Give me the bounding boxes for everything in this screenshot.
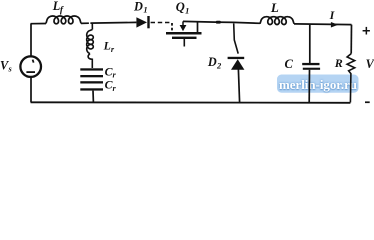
- svg-text:I: I: [329, 8, 336, 22]
- svg-text:C: C: [285, 57, 294, 71]
- svg-text:D1: D1: [133, 0, 148, 15]
- svg-text:Lr: Lr: [103, 39, 115, 54]
- svg-text:merlin-igor.ru: merlin-igor.ru: [279, 78, 357, 92]
- svg-text:R: R: [334, 56, 343, 70]
- svg-text:D2: D2: [207, 55, 222, 70]
- svg-text:Cr: Cr: [105, 78, 117, 93]
- svg-text:L: L: [270, 0, 279, 15]
- svg-text:Q1: Q1: [176, 0, 190, 15]
- svg-text:V: V: [366, 57, 374, 71]
- svg-text:Lf: Lf: [52, 0, 64, 16]
- svg-text:Vs: Vs: [0, 58, 12, 73]
